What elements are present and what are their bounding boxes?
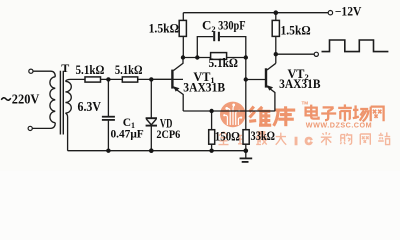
- svg-text:2CP6: 2CP6: [156, 127, 180, 141]
- svg-text:TM: TM: [302, 100, 309, 105]
- svg-text:3AX31B: 3AX31B: [183, 80, 225, 94]
- svg-text:150Ω: 150Ω: [215, 129, 240, 143]
- svg-text:1.5kΩ: 1.5kΩ: [149, 22, 179, 36]
- svg-text:5.1kΩ: 5.1kΩ: [209, 56, 239, 70]
- svg-text:C: C: [305, 136, 313, 147]
- svg-text:5.1kΩ: 5.1kΩ: [115, 62, 143, 77]
- svg-text:6.3V: 6.3V: [78, 100, 102, 115]
- svg-text:3AX31B: 3AX31B: [279, 77, 320, 91]
- svg-text:220V: 220V: [12, 93, 40, 108]
- svg-text:I: I: [295, 136, 298, 147]
- svg-text:330pF: 330pF: [218, 18, 246, 33]
- svg-text:−12V: −12V: [335, 5, 362, 19]
- svg-text:0.47μF: 0.47μF: [111, 126, 144, 140]
- svg-text:33kΩ: 33kΩ: [251, 129, 276, 143]
- svg-text:WWW.DZSC.COM: WWW.DZSC.COM: [306, 121, 372, 130]
- svg-text:5.1kΩ: 5.1kΩ: [76, 62, 105, 77]
- svg-text:T: T: [61, 61, 69, 75]
- svg-text:1.5kΩ: 1.5kΩ: [281, 24, 311, 38]
